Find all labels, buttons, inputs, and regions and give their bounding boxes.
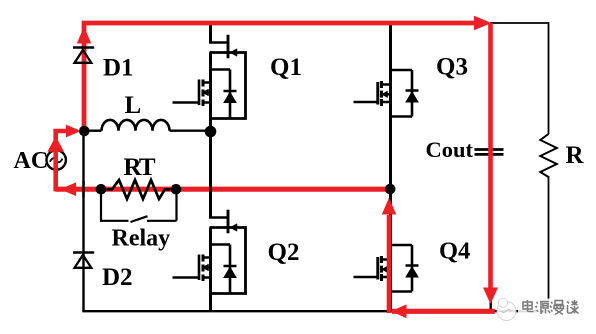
wire red right vertical xyxy=(488,23,493,289)
wire red middle riser xyxy=(387,215,392,313)
Q1 body diode bar xyxy=(224,90,237,93)
svg-text:Q2: Q2 xyxy=(268,239,300,266)
Q4 mosfet gate bar xyxy=(376,257,379,280)
watermark text backing xyxy=(518,299,581,317)
diode D1 bar xyxy=(73,46,94,49)
Q1 mosfet gate lead xyxy=(173,101,200,103)
Q3 mosfet stubs xyxy=(383,85,391,103)
red arrow up (AC riser) xyxy=(47,136,64,152)
Q4 body diode triangle xyxy=(406,267,418,277)
red arrow down (right vertical) xyxy=(483,288,498,305)
Q3 mosfet gate lead xyxy=(354,101,380,103)
svg-text:Cout: Cout xyxy=(426,137,474,162)
Q3 mosfet arrow xyxy=(382,91,388,98)
red arrow up (on D1 branch) xyxy=(77,27,91,44)
red arrow right (top rail) xyxy=(474,16,492,30)
Q2 body-diode loop xyxy=(211,245,231,294)
Q3 mosfet channel segments xyxy=(380,81,383,106)
wire red RT line xyxy=(56,187,389,192)
red arrow left (bottom segment) xyxy=(391,304,407,318)
Q1 mosfet gate bar xyxy=(198,80,201,106)
svg-text:R: R xyxy=(566,142,585,169)
wire left rail crossing red RT line xyxy=(82,181,84,197)
Q1 outer box xyxy=(210,53,246,119)
Q2 mosfet channel segments xyxy=(202,255,205,282)
svg-text:L: L xyxy=(125,92,142,119)
Q3 body-diode loop xyxy=(391,70,413,117)
Q2 main channel line xyxy=(209,228,212,312)
relay contact loop xyxy=(101,192,177,223)
Q2 mosfet stubs xyxy=(205,258,211,278)
wire red top rail + left riser xyxy=(84,23,474,129)
wire L left xyxy=(88,129,102,131)
Q1 mosfet channel segments xyxy=(202,80,205,107)
svg-text:Q3: Q3 xyxy=(436,54,468,81)
red arrow up (middle riser) xyxy=(382,198,396,215)
diode D1 triangle xyxy=(75,50,92,63)
transistor Q3 drain line xyxy=(389,21,392,186)
Q1 body diode triangle xyxy=(224,93,236,103)
Q2 outer box xyxy=(210,228,246,294)
wire L right xyxy=(170,129,208,131)
resistor R xyxy=(540,134,557,177)
Q2 body diode bar xyxy=(224,265,237,268)
red arrow left (RT line) xyxy=(60,182,76,196)
Q1 main channel line xyxy=(209,53,212,127)
Q1 body-diode loop xyxy=(211,70,231,119)
node L input (dot) xyxy=(79,126,90,137)
Q4 mosfet stubs xyxy=(383,260,391,278)
node RT left (dot) xyxy=(96,184,107,195)
capacitor Cout plates xyxy=(475,150,504,155)
Q3 body diode bar xyxy=(406,89,419,92)
svg-text:Relay: Relay xyxy=(112,226,171,252)
Q1 box-top arrow xyxy=(230,49,237,57)
Q3 mosfet gate bar xyxy=(376,82,379,105)
AC source circle xyxy=(47,150,66,169)
Q4 mosfet arrow xyxy=(382,266,388,273)
watermark logo blob xyxy=(497,302,516,321)
Q1 mosfet arrow xyxy=(202,89,209,96)
Q2 mosfet gate lead xyxy=(173,276,200,278)
Q4 mosfet gate lead xyxy=(354,276,380,278)
wire bottom rail xyxy=(82,310,548,312)
transistor Q4 drain line xyxy=(389,186,392,311)
Q2 box-top arrow xyxy=(230,224,237,232)
svg-text:D2: D2 xyxy=(102,264,133,291)
red arrow right (into L node) xyxy=(66,125,81,138)
svg-text:RT: RT xyxy=(124,154,156,181)
Q1 gate plate bar xyxy=(227,35,230,59)
Q2 gate feed bend xyxy=(209,216,228,219)
transistor Q1 drain stub from top rail xyxy=(209,21,212,43)
watermark text 电源漫谈 gray strokes xyxy=(523,300,579,315)
wire R bottom xyxy=(548,176,550,311)
AC sine wave xyxy=(50,158,62,162)
Q4 body diode bar xyxy=(406,264,419,267)
Q4 body-diode loop xyxy=(391,245,413,292)
Q1 gate feed bend xyxy=(209,41,228,44)
watermark text white halo strokes xyxy=(523,300,579,315)
svg-text:Q4: Q4 xyxy=(439,238,470,265)
wire top right to R xyxy=(490,23,549,134)
svg-text:AC: AC xyxy=(14,148,49,174)
wire black stub bottom-right corner under red arrow xyxy=(490,296,492,311)
Q4 mosfet channel segments xyxy=(380,256,383,281)
wire red AC loop xyxy=(56,131,66,191)
Q3 body diode triangle xyxy=(406,92,418,102)
Q2 body diode triangle xyxy=(224,268,236,278)
Q2 mosfet gate bar xyxy=(198,255,201,281)
Q2 mosfet arrow xyxy=(202,264,209,271)
diode D2 bar xyxy=(73,251,94,254)
inductor L xyxy=(102,120,170,131)
wire red bottom segment xyxy=(392,309,495,314)
Q2 gate plate bar xyxy=(227,210,230,234)
node RT right (dot) xyxy=(171,184,182,195)
wire left rail xyxy=(82,21,84,311)
node switch-node (dot) xyxy=(205,126,217,138)
diode D2 triangle xyxy=(75,255,92,268)
wire Q2 gate feed (crosses red) xyxy=(209,126,212,219)
node return (dot) xyxy=(385,184,396,195)
Q1 mosfet stubs xyxy=(205,83,211,103)
svg-text:Q1: Q1 xyxy=(270,54,302,81)
thermistor RT zigzag xyxy=(107,180,171,199)
svg-text:D1: D1 xyxy=(103,55,134,82)
